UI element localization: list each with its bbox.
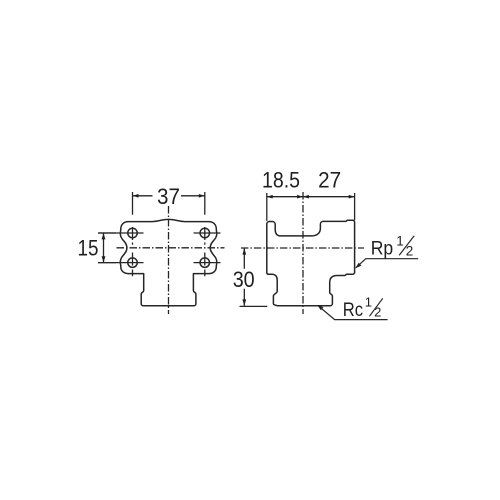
hole top-left [128,228,138,238]
leader line Rc [319,306,388,320]
dim 15 extension ticks [98,233,116,263]
svg-text:15: 15 [78,235,99,260]
svg-text:1: 1 [365,295,372,310]
arrow dim15 up [102,233,106,239]
dim 18.5/27 line [267,196,355,198]
hole centerline column right [204,192,206,276]
leader line Rp [356,259,418,268]
holes [128,228,210,267]
arrow dim30 down [242,299,246,305]
arrow dim37 left [133,194,139,198]
arrow dim27 right [349,195,355,199]
arrow leader Rc [317,305,323,310]
svg-text:Rp: Rp [371,237,394,259]
left view horizontal centerline [117,247,225,249]
label Rp 1/2 [371,233,415,259]
right view body outline [267,220,355,306]
arrow dim18.5 left [267,195,273,199]
dim 18.5 left extension [266,193,268,221]
arrow dim37 right [199,194,205,198]
dim 27 right extension [354,193,356,220]
arrow dim30 up [242,248,246,254]
arrow dim18.5 right [297,195,303,199]
arrow leader Rp [355,263,361,269]
dim 37 line [133,195,205,197]
svg-text:2: 2 [374,305,381,320]
hole row centerline top-left [98,232,144,234]
hole row centerline bottom-left [98,262,144,264]
right view vertical centerline [302,192,304,314]
arrow dim15 down [102,256,106,262]
svg-text:Rc: Rc [343,299,364,321]
dim 15 line [103,233,105,263]
svg-text:18.5: 18.5 [262,167,300,192]
right view horizontal centerline [241,247,364,249]
label Rc 1/2 [343,295,383,322]
svg-text:37: 37 [157,184,180,209]
arrow dim27 left [303,195,309,199]
svg-text:30: 30 [233,267,255,292]
hole bottom-left [128,258,138,268]
hole centerline column left [132,192,134,276]
dim 30 bottom extension [240,305,268,307]
hole bottom-right [200,258,210,268]
hole top-right [200,228,210,238]
dim 30 line [243,248,245,306]
hole row centerline top-right [194,232,221,234]
svg-text:27: 27 [318,167,341,192]
left view body outline [120,219,217,305]
hole row centerline bottom-right [194,262,221,264]
left view vertical centerline [168,206,170,314]
svg-text:1: 1 [396,233,404,248]
